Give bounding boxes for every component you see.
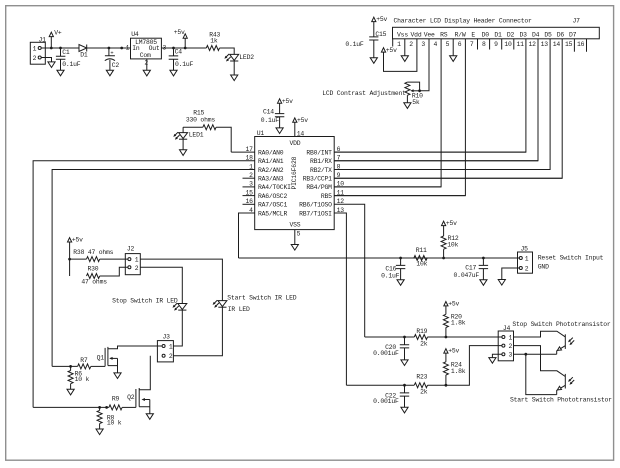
transistor Q1 xyxy=(104,348,106,367)
svg-text:D1: D1 xyxy=(494,32,502,39)
svg-text:RA2/AN2: RA2/AN2 xyxy=(258,167,284,174)
ground xyxy=(48,62,55,68)
wire J4 pin3 row to stop PT emitter xyxy=(514,353,557,355)
resistor R8 xyxy=(98,406,101,409)
wire J2 pin1 to Start IR LED xyxy=(140,259,222,301)
wire J7 pin1 to ground xyxy=(404,39,406,56)
svg-text:3: 3 xyxy=(421,41,425,48)
ground xyxy=(146,414,153,420)
wire J7 pin14 D7 xyxy=(334,39,562,178)
svg-text:D4: D4 xyxy=(532,32,540,39)
svg-text:R23: R23 xyxy=(416,374,427,381)
svg-text:1: 1 xyxy=(33,45,37,52)
wire J7 pin6 E xyxy=(334,39,465,196)
svg-text:5: 5 xyxy=(446,41,450,48)
resistor R12 xyxy=(442,257,445,260)
resistor R9 xyxy=(33,406,109,408)
connector J7 body xyxy=(393,27,600,39)
svg-text:R38 47 ohms: R38 47 ohms xyxy=(73,249,113,256)
connector J5 xyxy=(518,252,533,273)
svg-text:RB7/T1OSI: RB7/T1OSI xyxy=(299,210,332,217)
svg-text:Q1: Q1 xyxy=(97,355,105,362)
svg-text:C17: C17 xyxy=(465,264,476,271)
svg-text:D0: D0 xyxy=(482,32,490,39)
svg-text:15: 15 xyxy=(565,41,573,48)
resistor R38 xyxy=(70,258,87,260)
svg-text:11: 11 xyxy=(516,41,524,48)
svg-text:J5: J5 xyxy=(521,246,529,253)
svg-text:10: 10 xyxy=(504,41,512,48)
svg-text:C2: C2 xyxy=(112,62,120,69)
svg-text:D6: D6 xyxy=(557,32,565,39)
svg-text:0.1uF: 0.1uF xyxy=(381,273,400,280)
svg-text:RA0/AN0: RA0/AN0 xyxy=(258,149,284,156)
Stop Switch IR LED xyxy=(178,304,187,310)
svg-text:+5v: +5v xyxy=(174,29,185,36)
connector J1 xyxy=(30,42,45,64)
wire J7 pin5 to ground xyxy=(452,39,454,56)
svg-text:1: 1 xyxy=(126,44,130,51)
svg-text:R11: R11 xyxy=(416,247,427,254)
svg-text:1: 1 xyxy=(135,257,139,264)
resistor R20 xyxy=(445,336,448,339)
svg-text:5k: 5k xyxy=(412,99,420,106)
svg-text:J2: J2 xyxy=(127,246,135,253)
LED1 xyxy=(182,127,184,132)
wire J4 pin1 to stop PT collector xyxy=(514,331,566,337)
ground xyxy=(231,75,238,81)
svg-text:J3: J3 xyxy=(163,334,171,341)
svg-text:1.8k: 1.8k xyxy=(451,320,466,327)
svg-text:D1: D1 xyxy=(80,52,88,59)
connector J4 xyxy=(498,331,513,361)
svg-text:Start Switch Phototransistor: Start Switch Phototransistor xyxy=(510,397,612,404)
wire LED1 to ground xyxy=(182,139,184,150)
svg-text:VSS: VSS xyxy=(289,221,300,228)
capacitor C14 xyxy=(275,103,284,128)
node +5v xyxy=(184,47,187,50)
svg-text:10k: 10k xyxy=(447,241,458,248)
svg-text:6: 6 xyxy=(458,41,462,48)
svg-text:2: 2 xyxy=(525,265,529,272)
svg-text:RA7/OSC1: RA7/OSC1 xyxy=(258,202,287,209)
svg-text:+5v: +5v xyxy=(448,348,459,355)
svg-text:Stop Switch Phototransistor: Stop Switch Phototransistor xyxy=(512,321,611,328)
svg-text:0.1uF: 0.1uF xyxy=(62,61,81,68)
wire LED2 to ground xyxy=(233,61,235,75)
wire reset row xyxy=(239,257,520,259)
svg-text:1k: 1k xyxy=(210,37,218,44)
connector J2 xyxy=(125,254,140,275)
svg-text:1: 1 xyxy=(509,334,513,341)
capacitor C15 xyxy=(369,22,378,58)
wire main +V rail xyxy=(42,47,131,49)
wire J4 pin2 to start PT collector xyxy=(514,346,566,377)
wire start PT emitter return to J4 pin3 xyxy=(526,354,557,394)
svg-text:2: 2 xyxy=(509,343,513,350)
svg-text:7: 7 xyxy=(470,41,474,48)
ground xyxy=(57,70,64,76)
svg-text:Start Switch IR LED: Start Switch IR LED xyxy=(227,295,296,302)
svg-text:16: 16 xyxy=(577,41,585,48)
svg-text:RB0/INT: RB0/INT xyxy=(306,149,332,156)
svg-text:Q2: Q2 xyxy=(127,394,135,401)
resistor R30 xyxy=(87,274,100,279)
ground xyxy=(106,70,113,76)
svg-text:D7: D7 xyxy=(569,32,577,39)
svg-text:D2: D2 xyxy=(507,32,515,39)
svg-text:C4: C4 xyxy=(175,49,183,56)
capacitor C20 xyxy=(403,336,406,339)
resistor R19 xyxy=(414,335,427,340)
svg-text:J7: J7 xyxy=(573,18,581,25)
svg-text:RS: RS xyxy=(440,32,448,39)
svg-text:2: 2 xyxy=(135,265,139,272)
J7 pin15 stub xyxy=(573,39,575,52)
wire MCLR to reset row xyxy=(239,213,255,258)
ground xyxy=(143,70,150,76)
J7 pin9 stub xyxy=(501,39,503,50)
svg-text:RB1/RX: RB1/RX xyxy=(310,158,332,165)
wire Stop IR LED to J3 pin1 xyxy=(173,310,182,346)
svg-text:0.001uF: 0.001uF xyxy=(373,398,399,405)
ground xyxy=(370,58,377,64)
wire RA2 net xyxy=(52,170,255,367)
wire J7 pin13 D6 xyxy=(334,39,550,170)
wire J7 pin3 to R10 wiper xyxy=(420,39,429,91)
J7 pin10 stub xyxy=(513,39,515,50)
potentiometer R10 xyxy=(405,82,410,95)
resistor R24 xyxy=(445,384,448,387)
svg-text:2k: 2k xyxy=(420,340,428,347)
wire J1 pin2 to ground xyxy=(42,58,52,62)
wire xyxy=(220,48,235,54)
svg-text:U1: U1 xyxy=(257,130,265,137)
svg-text:RB3/CCP1: RB3/CCP1 xyxy=(303,176,332,183)
svg-text:10 k: 10 k xyxy=(107,420,122,427)
LED2 xyxy=(230,54,239,60)
U1 pin 5 VSS to ground xyxy=(294,230,296,245)
svg-text:GND: GND xyxy=(538,264,549,271)
svg-text:1.8k: 1.8k xyxy=(451,368,466,375)
svg-text:RA5/MCLR: RA5/MCLR xyxy=(258,210,287,217)
resistor R11 xyxy=(414,256,427,261)
svg-text:RA6/OSC2: RA6/OSC2 xyxy=(258,193,287,200)
svg-text:47 ohms: 47 ohms xyxy=(81,279,107,286)
J7 stub tick xyxy=(392,39,394,47)
svg-text:8: 8 xyxy=(482,41,486,48)
svg-text:LED1: LED1 xyxy=(189,132,204,139)
wire J7 pin12 D5 xyxy=(334,39,538,161)
svg-text:C1: C1 xyxy=(62,49,70,56)
svg-text:0.1uF: 0.1uF xyxy=(261,117,280,124)
svg-text:2: 2 xyxy=(33,55,37,62)
svg-text:RA1/AN1: RA1/AN1 xyxy=(258,158,284,165)
wire Start IR LED to J3 pin2 xyxy=(173,307,222,356)
svg-text:V+: V+ xyxy=(54,29,62,36)
capacitor C2 xyxy=(108,47,111,50)
svg-text:J1: J1 xyxy=(39,36,47,43)
svg-text:RB2/TX: RB2/TX xyxy=(310,167,332,174)
resistor R15 xyxy=(183,126,203,128)
wire J4 pin3 to ground xyxy=(492,354,501,357)
svg-text:1: 1 xyxy=(525,255,529,262)
capacitor C1 xyxy=(59,47,62,50)
svg-text:2k: 2k xyxy=(420,389,428,396)
diode D1 xyxy=(79,45,87,52)
svg-text:C15: C15 xyxy=(375,31,386,38)
svg-text:1: 1 xyxy=(397,41,401,48)
svg-text:10k: 10k xyxy=(416,260,427,267)
wire J7 pin2 to +5v xyxy=(384,39,417,72)
svg-text:+5v: +5v xyxy=(282,98,293,105)
svg-text:VDD: VDD xyxy=(289,140,300,147)
wire R23 row xyxy=(346,384,414,386)
svg-text:9: 9 xyxy=(494,41,498,48)
J7 pin16 stub xyxy=(586,39,588,52)
wire J7 pin11 D4 xyxy=(334,39,526,152)
ground xyxy=(114,373,121,379)
resistor R7 xyxy=(52,365,78,367)
svg-text:+: + xyxy=(110,51,113,57)
svg-text:Vee: Vee xyxy=(424,32,435,39)
svg-text:LED2: LED2 xyxy=(239,54,254,61)
capacitor C22 xyxy=(403,384,406,387)
node V+ xyxy=(50,36,52,48)
svg-text:D3: D3 xyxy=(520,32,528,39)
svg-text:2: 2 xyxy=(144,59,148,66)
svg-text:12: 12 xyxy=(529,41,537,48)
svg-text:RA4/T0CKI: RA4/T0CKI xyxy=(258,184,291,191)
svg-text:RA3/AN3: RA3/AN3 xyxy=(258,176,284,183)
svg-text:U4: U4 xyxy=(131,31,139,38)
svg-text:Out: Out xyxy=(149,45,160,52)
svg-text:3: 3 xyxy=(509,352,513,359)
wire J7 pin4 RS xyxy=(334,39,441,187)
capacitor C16 xyxy=(399,257,402,260)
op-amp U1 PIC16F628 body xyxy=(255,137,335,230)
ground xyxy=(276,128,283,134)
wire U4 pin2 to ground xyxy=(146,59,148,70)
wire R19 row xyxy=(365,336,415,338)
svg-text:R30: R30 xyxy=(88,265,99,272)
svg-text:330 ohms: 330 ohms xyxy=(186,117,215,124)
svg-text:+5v: +5v xyxy=(386,47,397,54)
svg-text:14: 14 xyxy=(297,131,305,138)
svg-text:R9: R9 xyxy=(112,396,120,403)
node +5v IR supply xyxy=(69,242,71,276)
svg-text:0.1uF: 0.1uF xyxy=(345,41,364,48)
Start Switch IR LED xyxy=(218,301,227,307)
J7 pin7 stub xyxy=(477,39,479,50)
svg-text:+5v: +5v xyxy=(376,16,387,23)
svg-text:Vss: Vss xyxy=(397,32,408,39)
svg-text:IR LED: IR LED xyxy=(228,306,250,313)
svg-text:5: 5 xyxy=(297,231,301,238)
resistor R43 xyxy=(206,46,219,51)
svg-text:13: 13 xyxy=(541,41,549,48)
svg-text:In: In xyxy=(132,45,140,52)
transistor Q2 xyxy=(135,389,137,407)
svg-text:R7: R7 xyxy=(80,357,88,364)
svg-text:Character LCD Display Header C: Character LCD Display Header Connector xyxy=(394,18,532,25)
svg-text:RB5: RB5 xyxy=(321,193,332,200)
svg-text:0.047uF: 0.047uF xyxy=(454,272,480,279)
resistor R6 xyxy=(69,365,72,368)
wire J2 pin2 to Stop IR LED xyxy=(140,267,182,303)
svg-text:+5v: +5v xyxy=(297,117,308,124)
svg-text:C14: C14 xyxy=(263,108,274,115)
svg-text:Com: Com xyxy=(140,52,151,59)
svg-text:C16: C16 xyxy=(385,266,396,273)
svg-text:Reset Switch Input: Reset Switch Input xyxy=(538,255,604,262)
capacitor C17 xyxy=(482,257,485,260)
svg-text:+5v: +5v xyxy=(72,237,83,244)
svg-text:RB4/PGM: RB4/PGM xyxy=(306,184,332,191)
wire RA1 net xyxy=(33,161,255,408)
svg-text:2: 2 xyxy=(409,41,413,48)
svg-text:LCD Contrast Adjustment: LCD Contrast Adjustment xyxy=(322,90,406,97)
svg-text:Stop Switch IR LED: Stop Switch IR LED xyxy=(112,297,178,304)
svg-text:R19: R19 xyxy=(416,328,427,335)
svg-text:0.1uF: 0.1uF xyxy=(175,61,194,68)
resistor R23 xyxy=(414,383,427,388)
svg-text:14: 14 xyxy=(553,41,561,48)
svg-text:D5: D5 xyxy=(544,32,552,39)
svg-text:4: 4 xyxy=(433,41,437,48)
svg-text:10 k: 10 k xyxy=(75,376,90,383)
svg-text:PIC16F628: PIC16F628 xyxy=(291,156,298,189)
svg-text:0.001uF: 0.001uF xyxy=(373,350,399,357)
svg-text:1: 1 xyxy=(169,343,173,350)
svg-text:+5v: +5v xyxy=(446,220,457,227)
U1 pin 14 VDD +5v xyxy=(294,122,296,136)
ground xyxy=(170,70,177,76)
svg-text:RB6/T1OSO: RB6/T1OSO xyxy=(299,202,332,209)
svg-text:R/W: R/W xyxy=(455,32,466,39)
J7 pin8 stub xyxy=(489,39,491,50)
svg-text:E: E xyxy=(471,32,475,39)
wire R23 row to J4 pin2 xyxy=(428,346,502,386)
connector J3 xyxy=(157,341,173,362)
wire J5 pin2 to ground xyxy=(502,268,519,280)
svg-text:J4: J4 xyxy=(503,325,511,332)
svg-text:+5v: +5v xyxy=(448,301,459,308)
svg-text:Vdd: Vdd xyxy=(411,32,422,39)
svg-text:2: 2 xyxy=(169,353,173,360)
capacitor C4 xyxy=(172,47,175,50)
wire +5v rail xyxy=(161,47,206,49)
node xyxy=(120,47,123,50)
